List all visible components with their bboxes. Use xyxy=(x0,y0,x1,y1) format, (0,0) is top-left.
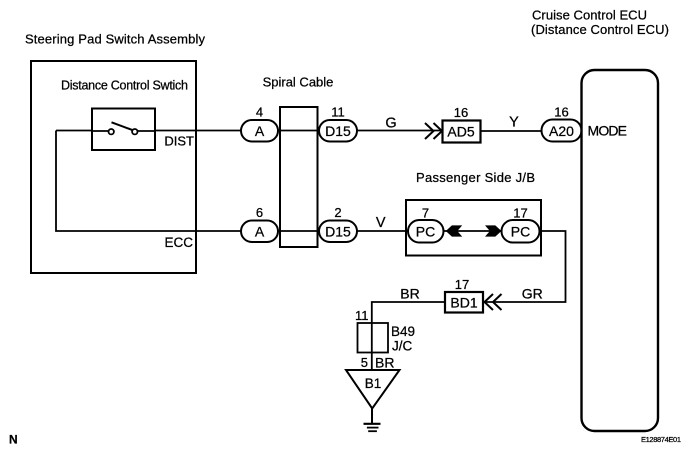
svg-text:B49: B49 xyxy=(391,324,415,339)
svg-text:V: V xyxy=(376,215,386,231)
svg-text:MODE: MODE xyxy=(588,123,628,139)
junction BD1 pin 17 xyxy=(445,277,483,313)
connector D15 pin 11 xyxy=(319,105,357,142)
ground symbol xyxy=(364,424,381,431)
wire: between PC connectors xyxy=(443,230,501,232)
connector A pin 4 xyxy=(241,105,278,142)
chevrons: double arrow into AD5 xyxy=(425,123,442,139)
svg-text:17: 17 xyxy=(513,206,527,221)
svg-text:(Distance Control ECU): (Distance Control ECU) xyxy=(531,22,669,37)
junction AD5 pin 16 xyxy=(443,105,481,143)
label: Cruise Control ECU (Distance Control ECU) xyxy=(531,8,669,38)
connector A pin 6 xyxy=(241,205,278,242)
connector PC pin 7 xyxy=(408,206,444,243)
svg-text:D15: D15 xyxy=(325,123,351,139)
svg-text:ECC: ECC xyxy=(164,235,193,250)
svg-text:BD1: BD1 xyxy=(450,295,477,311)
svg-text:Y: Y xyxy=(509,115,519,131)
svg-text:N: N xyxy=(9,433,18,447)
ground triangle B1 xyxy=(346,370,400,409)
svg-text:DIST: DIST xyxy=(164,134,194,149)
svg-text:PC: PC xyxy=(416,224,435,240)
svg-text:11: 11 xyxy=(331,105,345,120)
connector PC pin 17 xyxy=(502,206,540,243)
wire: G (D15-11 to AD5) xyxy=(356,130,444,132)
arrow: solid left-pointing into PC-7 xyxy=(446,225,462,236)
wire: switch to connector A pin 4 (DIST) xyxy=(155,130,243,132)
wire: DIST row through spiral cable xyxy=(277,130,321,132)
svg-text:PC: PC xyxy=(511,224,530,240)
svg-text:J/C: J/C xyxy=(392,339,413,354)
spiral cable box xyxy=(280,107,318,247)
svg-text:16: 16 xyxy=(554,105,568,120)
svg-text:4: 4 xyxy=(256,105,263,120)
svg-text:GR: GR xyxy=(522,286,543,302)
arrow: solid right-pointing into PC-17 xyxy=(485,225,501,236)
svg-text:BR: BR xyxy=(400,286,419,302)
connector D15 pin 2 xyxy=(319,205,357,242)
svg-text:7: 7 xyxy=(422,206,429,221)
wire: GR (PC-17 right, down, left to BD1) xyxy=(484,231,566,302)
wire: Y (AD5 to A20) xyxy=(480,130,543,132)
svg-text:G: G xyxy=(385,116,396,132)
svg-text:A: A xyxy=(255,224,265,240)
wire: ECC row through spiral cable xyxy=(277,230,321,232)
svg-text:16: 16 xyxy=(454,105,468,120)
label: B49 J/C xyxy=(391,324,415,354)
svg-text:E128874E01: E128874E01 xyxy=(641,435,681,444)
svg-text:Distance Control Swtich: Distance Control Swtich xyxy=(61,79,188,93)
wire: left of switch (DIST row) xyxy=(56,130,92,132)
svg-text:2: 2 xyxy=(334,205,341,220)
svg-text:Spiral Cable: Spiral Cable xyxy=(263,75,334,90)
junction B49 J/C box xyxy=(358,323,389,353)
box: Steering Pad Switch Assembly xyxy=(31,61,196,273)
svg-text:A20: A20 xyxy=(549,123,574,139)
wire: triangle apex to ground xyxy=(371,409,373,424)
svg-text:5: 5 xyxy=(361,355,368,370)
chevrons: double arrow into BD1 xyxy=(485,294,502,310)
wire: V (D15-2 to PC-7) xyxy=(356,230,410,232)
svg-text:A: A xyxy=(255,123,265,139)
svg-text:Steering Pad Switch Assembly: Steering Pad Switch Assembly xyxy=(25,32,206,47)
svg-text:BR: BR xyxy=(375,355,394,371)
switch: Distance Control Switch contacts xyxy=(91,109,156,151)
box: Passenger Side J/B xyxy=(406,200,541,256)
svg-text:B1: B1 xyxy=(365,376,382,391)
svg-text:Cruise Control ECU: Cruise Control ECU xyxy=(532,8,647,23)
wire: BR (BD1 left, down to B49) xyxy=(372,302,445,370)
svg-text:AD5: AD5 xyxy=(447,124,474,140)
svg-text:Passenger Side J/B: Passenger Side J/B xyxy=(416,170,535,185)
connector A20 pin 16 xyxy=(542,105,582,142)
svg-text:11: 11 xyxy=(355,308,369,323)
svg-text:17: 17 xyxy=(455,277,469,292)
svg-text:D15: D15 xyxy=(325,224,351,240)
wire: ECC loop (left, down, right to connector A pin 6) xyxy=(56,131,243,232)
ECU box: Cruise Control ECU xyxy=(582,70,659,431)
svg-text:6: 6 xyxy=(256,205,263,220)
